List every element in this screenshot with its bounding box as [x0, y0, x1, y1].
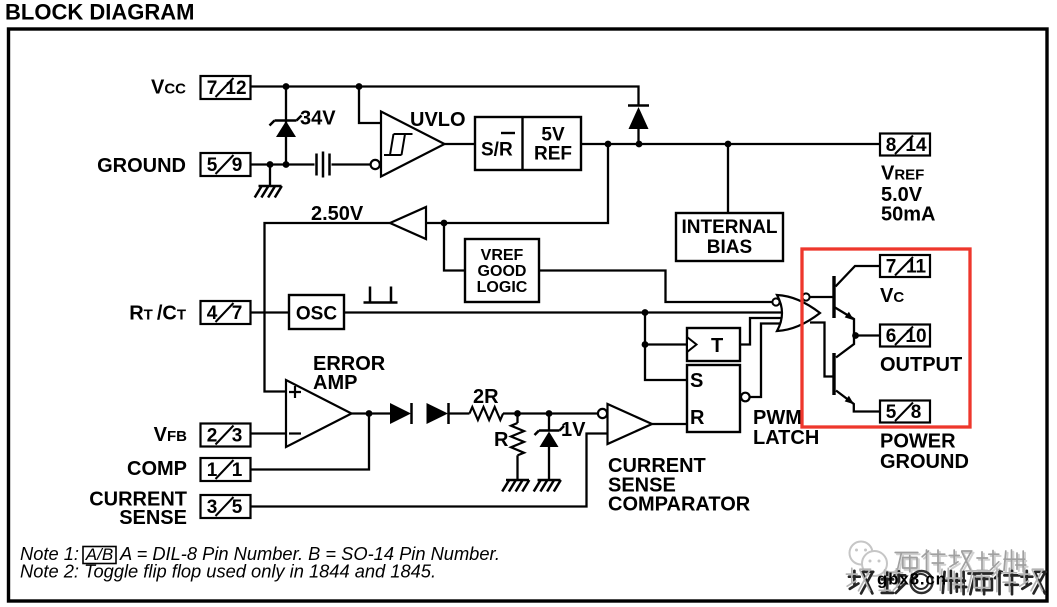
svg-text:Note 2:: Note 2:: [20, 561, 79, 582]
block S/R 5V REF: [475, 117, 581, 170]
wire error amp output: [352, 412, 391, 414]
clock pulses glyph: [364, 287, 398, 304]
wire Vcc rail: [251, 87, 639, 106]
svg-text:LATCH: LATCH: [753, 427, 819, 449]
pin box 5/8: [880, 401, 930, 424]
svg-text:5V: 5V: [541, 125, 565, 146]
pin box 3/5: [201, 495, 251, 518]
gate NOR output: [772, 293, 820, 331]
wire clock to T flip flop: [645, 343, 687, 345]
transistor Q1: [834, 276, 854, 320]
pin box 4/7: [201, 301, 251, 324]
wire zener branch: [285, 87, 287, 165]
svg-text:S/R: S/R: [481, 140, 513, 161]
wire internal bias branch: [727, 144, 729, 213]
watermark text row 1: [895, 550, 1027, 574]
svg-text:GROUND: GROUND: [880, 451, 969, 473]
ground symbol (under 1V zener): [534, 480, 561, 492]
svg-text:14: 14: [905, 135, 927, 156]
op-amp UVLO: [371, 109, 466, 177]
svg-text:VCC: VCC: [151, 77, 186, 99]
svg-text:50mA: 50mA: [881, 204, 935, 226]
zener diode 1V: [535, 426, 565, 447]
svg-text:SENSE: SENSE: [119, 507, 187, 529]
wire buffer to error amp: [265, 223, 391, 392]
wire diode D2 anode: [637, 129, 639, 144]
svg-text:S: S: [690, 370, 703, 392]
wire R branch: [516, 414, 518, 481]
wire gate to bottom base: [810, 323, 833, 377]
svg-text:PWM: PWM: [753, 407, 802, 429]
wire UVLO output: [445, 143, 476, 145]
svg-text:2.50V: 2.50V: [311, 203, 364, 225]
diode D3: [390, 403, 412, 424]
svg-text:GROUND: GROUND: [97, 155, 186, 177]
flip-flop T: [687, 328, 740, 361]
diode D2: [628, 106, 649, 130]
buffer 2.50V: [390, 207, 426, 239]
svg-text:COMPARATOR: COMPARATOR: [608, 494, 751, 516]
svg-text:Toggle flip flop used only in: Toggle flip flop used only in 1844 and 1…: [84, 561, 436, 582]
pin box 2/3: [201, 424, 251, 447]
wire VFB input: [251, 432, 287, 434]
svg-text:8: 8: [886, 135, 897, 156]
svg-text:3: 3: [232, 426, 243, 447]
wire to vref good logic: [444, 223, 465, 271]
svg-text:T: T: [711, 335, 723, 357]
block VREF GOOD LOGIC: [465, 239, 539, 302]
wire PWM latch output: [750, 324, 781, 398]
svg-text:BLOCK DIAGRAM: BLOCK DIAGRAM: [5, 0, 194, 25]
svg-text:COMP: COMP: [127, 458, 187, 480]
svg-text:LOGIC: LOGIC: [477, 279, 528, 296]
svg-text:AMP: AMP: [313, 372, 357, 394]
svg-text:5: 5: [232, 497, 243, 518]
wire COMP feedback: [251, 414, 370, 470]
pin box 5/9: [201, 153, 251, 176]
svg-text:1: 1: [232, 460, 243, 481]
svg-text:R: R: [690, 407, 705, 429]
wire ref to 2.50V buffer: [426, 144, 608, 223]
diode D4: [427, 403, 449, 424]
svg-text:VFB: VFB: [154, 424, 188, 446]
wire bottom emitter to 5/8: [836, 391, 880, 412]
wire gate to top base: [810, 296, 833, 298]
watermark text row 2: [846, 568, 1045, 594]
watermark smiley logo: [850, 542, 899, 577]
svg-text:UVLO: UVLO: [410, 109, 466, 131]
watermark circle logo: [911, 571, 933, 593]
wire comparator to R input: [652, 423, 687, 425]
wire current sense input: [251, 434, 608, 507]
svg-text:8: 8: [911, 402, 922, 423]
svg-text:9: 9: [232, 155, 243, 176]
wire ground stub: [269, 165, 271, 187]
zener diode 34V: [270, 116, 302, 138]
resistor R: [511, 423, 524, 455]
pin box 7/11: [880, 255, 930, 278]
svg-text:12: 12: [225, 78, 246, 99]
transistor Q2: [834, 353, 854, 404]
wire battery to UVLO: [332, 163, 371, 165]
latch PWM: [687, 365, 819, 449]
resistor 2R: [470, 407, 504, 420]
ground symbol (left): [255, 186, 282, 198]
wire diode to 2R: [449, 412, 470, 414]
wire UVLO plus input: [359, 87, 381, 124]
wire T output: [740, 318, 781, 345]
svg-text:VREF: VREF: [481, 247, 524, 264]
wire clock to T and S: [645, 313, 687, 381]
svg-text:1V: 1V: [561, 419, 586, 441]
wire ground line: [251, 163, 315, 165]
pin box 8/14: [880, 134, 930, 157]
wire top emitter to output: [835, 308, 880, 336]
wire 5V REF output rail: [581, 143, 880, 145]
svg-text:VC: VC: [880, 285, 904, 307]
svg-text:REF: REF: [534, 144, 572, 165]
block OSC: [289, 295, 344, 329]
wire top collector to 7/11: [836, 266, 881, 287]
svg-text:gbx8.cn: gbx8.cn: [877, 570, 947, 589]
wire RT/CT to OSC: [251, 311, 290, 313]
op-amp current sense comparator: [598, 404, 751, 516]
svg-text:INTERNAL: INTERNAL: [681, 217, 777, 238]
wire bottom collector: [836, 336, 854, 358]
svg-text:6: 6: [886, 326, 897, 347]
svg-text:R: R: [494, 429, 509, 451]
pin box 6/10: [880, 325, 930, 348]
svg-text:POWER: POWER: [880, 431, 956, 453]
svg-text:OSC: OSC: [296, 304, 337, 325]
red highlight box: [802, 249, 970, 427]
svg-text:34V: 34V: [300, 108, 336, 130]
wire vref good logic output: [539, 271, 772, 303]
svg-text:GOOD: GOOD: [478, 263, 527, 280]
svg-text:2R: 2R: [473, 386, 499, 408]
svg-text:VREF: VREF: [881, 163, 924, 185]
op-amp error amp: [286, 353, 386, 447]
svg-text:OUTPUT: OUTPUT: [880, 354, 962, 376]
pin box 1/1: [201, 458, 251, 481]
svg-text:7: 7: [886, 257, 897, 278]
wire 2R to comparator: [503, 412, 598, 414]
ground symbol (under R): [502, 480, 529, 492]
svg-text:7: 7: [232, 303, 243, 324]
wire OSC output: [344, 311, 781, 313]
svg-text:RT /CT: RT /CT: [129, 303, 186, 325]
battery threshold symbol: [317, 152, 330, 178]
svg-text:10: 10: [905, 326, 926, 347]
block INTERNAL BIAS: [676, 213, 783, 261]
wire 1V zener branch: [548, 414, 550, 481]
svg-text:BIAS: BIAS: [707, 237, 752, 258]
pin box 7/12: [201, 76, 251, 99]
